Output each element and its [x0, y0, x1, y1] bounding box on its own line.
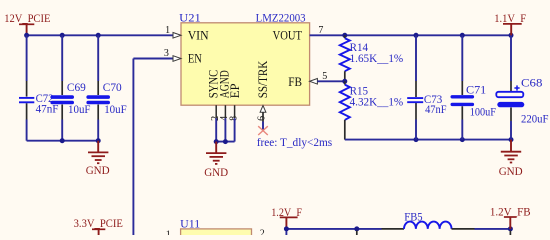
power port 1.2V_F [271, 207, 302, 229]
capacitor C73 47nF [407, 94, 446, 116]
capacitor C72 47nF [19, 93, 59, 116]
svg-text:GND: GND [499, 166, 523, 178]
pin 1 VIN [165, 25, 208, 43]
svg-text:12V_PCIE: 12V_PCIE [4, 13, 50, 25]
wire 1.2V_F node [284, 226, 382, 235]
svg-text:1: 1 [165, 25, 170, 36]
wire C69 branch [61, 35, 63, 140]
pin 3 EN [164, 48, 202, 66]
svg-text:EP: EP [228, 83, 242, 98]
svg-text:1: 1 [166, 230, 171, 236]
svg-text:10uF: 10uF [104, 104, 127, 116]
capacitor C71 100uF [452, 84, 496, 118]
wire C72 branch [26, 35, 28, 140]
no-ERC cross on pin 6 [258, 126, 268, 135]
node junction dots on 12V rail [24, 33, 29, 38]
power port 12V_PCIE [4, 13, 50, 35]
svg-text:C70: C70 [103, 82, 122, 94]
node FB junction [342, 79, 347, 84]
svg-text:LMZ22003: LMZ22003 [256, 13, 306, 25]
svg-text:2: 2 [260, 228, 265, 235]
svg-text:100uF: 100uF [470, 107, 496, 119]
wire EN net [133, 59, 173, 236]
pin 5 FB [288, 71, 327, 89]
resistor R14 1.65K [340, 35, 404, 81]
resistor R15 4.32K [340, 81, 404, 139]
pin 2 SYNC [206, 70, 221, 142]
pin 7 VOUT [273, 25, 324, 42]
svg-text:GND: GND [204, 167, 228, 179]
wire C70 branch [97, 35, 99, 140]
svg-text:47nF: 47nF [36, 104, 59, 116]
svg-text:VIN: VIN [188, 28, 209, 42]
svg-text:FB: FB [288, 75, 302, 89]
IC U11 body [181, 229, 252, 236]
svg-text:4.32K__1%: 4.32K__1% [350, 96, 404, 108]
power port 1.1V_F [494, 13, 526, 35]
wire C71 branch [461, 35, 463, 139]
pin 8 EP [228, 83, 242, 141]
ground right GND [499, 140, 523, 178]
svg-text:free: T_dly<2ms: free: T_dly<2ms [257, 137, 333, 149]
svg-text:EN: EN [188, 52, 202, 66]
wire C68 branch [510, 35, 512, 139]
power port 3.3V_PCIE [74, 218, 123, 235]
svg-text:6: 6 [257, 116, 268, 121]
svg-text:3.3V_PCIE: 3.3V_PCIE [74, 218, 123, 230]
power port 1.2V_FB [490, 206, 531, 229]
svg-text:220uF: 220uF [521, 114, 549, 126]
svg-text:FB5: FB5 [404, 211, 423, 223]
svg-text:C69: C69 [67, 82, 86, 94]
svg-text:1.65K__1%: 1.65K__1% [350, 53, 404, 65]
svg-text:U21: U21 [179, 13, 201, 25]
capacitor C70 10uF [88, 82, 127, 116]
svg-text:47nF: 47nF [425, 104, 446, 116]
capacitor C68 220uF polarized [496, 77, 548, 125]
svg-text:U11: U11 [180, 218, 200, 230]
svg-text:SS/TRK: SS/TRK [256, 61, 270, 99]
svg-text:GND: GND [86, 165, 110, 177]
capacitor C69 10uF [52, 82, 90, 116]
svg-text:VOUT: VOUT [273, 28, 303, 42]
wire pins 2-4-8 ground bus [216, 141, 234, 143]
wire input cap ground bus [27, 140, 99, 142]
wire VOUT rail [310, 34, 511, 36]
svg-text:C68: C68 [521, 77, 543, 89]
pin 4 AGND [217, 70, 231, 141]
wire 12V rail to VIN [27, 34, 173, 36]
op-amp U21 body [181, 23, 310, 105]
svg-text:C71: C71 [466, 84, 486, 96]
svg-text:10uF: 10uF [68, 104, 91, 116]
wire output ground bus [345, 139, 511, 141]
inductor FB5 ferrite bead [382, 211, 475, 229]
svg-text:3: 3 [164, 48, 169, 59]
pin 6 SS/TRK [256, 61, 270, 131]
wire C73 branch [415, 35, 417, 139]
wire to 1.2V_FB [475, 226, 513, 235]
ground middle GND [204, 142, 228, 179]
wire FB net [317, 80, 344, 82]
ground left GND [86, 141, 110, 177]
